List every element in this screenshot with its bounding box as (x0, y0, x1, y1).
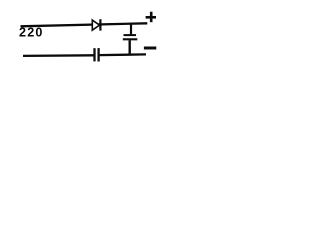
svg-text:220: 220 (19, 26, 44, 40)
